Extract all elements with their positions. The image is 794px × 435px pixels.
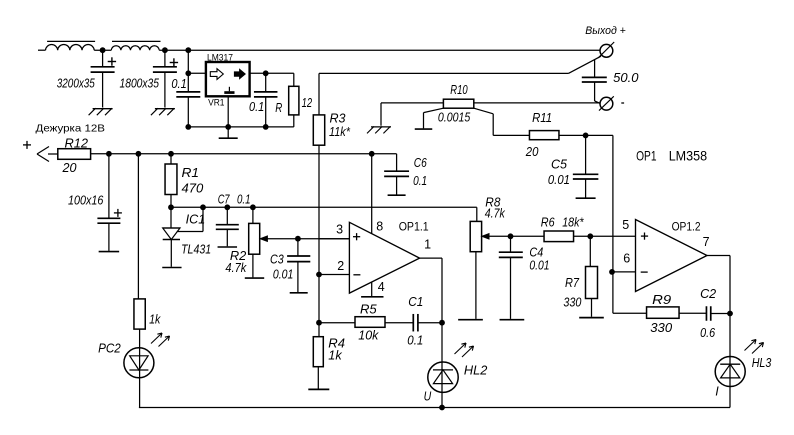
svg-text:50.0: 50.0 (613, 71, 638, 85)
svg-text:R9: R9 (652, 292, 671, 307)
svg-text:3: 3 (336, 222, 343, 236)
svg-text:R12: R12 (65, 137, 89, 151)
svg-text:8: 8 (376, 219, 383, 233)
svg-text:HL3: HL3 (752, 356, 772, 370)
svg-text:0.1: 0.1 (237, 192, 251, 206)
svg-text:1k: 1k (328, 348, 342, 362)
svg-text:7: 7 (703, 235, 710, 249)
svg-text:0.01: 0.01 (529, 259, 549, 273)
svg-text:0.01: 0.01 (548, 173, 570, 187)
svg-text:0.1: 0.1 (407, 333, 423, 347)
svg-text:20: 20 (525, 145, 539, 159)
svg-text:R10: R10 (450, 83, 467, 97)
svg-text:LM317: LM317 (207, 53, 233, 64)
svg-text:0.01: 0.01 (273, 267, 293, 281)
svg-text:R7: R7 (565, 276, 580, 290)
svg-text:3200x35: 3200x35 (57, 77, 95, 91)
svg-text:R3: R3 (330, 112, 346, 126)
svg-text:U: U (424, 389, 432, 403)
svg-text:C3: C3 (270, 253, 284, 267)
svg-text:TL431: TL431 (181, 242, 211, 256)
svg-text:C5: C5 (551, 157, 567, 171)
svg-text:R: R (275, 101, 282, 115)
svg-text:OP1.2: OP1.2 (672, 222, 701, 234)
svg-text:C2: C2 (700, 287, 716, 301)
svg-text:10k: 10k (358, 328, 379, 342)
svg-text:0.1: 0.1 (249, 100, 264, 114)
svg-text:1: 1 (424, 237, 431, 251)
svg-text:0.1: 0.1 (413, 174, 427, 188)
svg-text:6: 6 (623, 252, 630, 266)
svg-text:1800x35: 1800x35 (120, 77, 160, 91)
svg-text:0.0015: 0.0015 (438, 111, 470, 125)
svg-text:HL2: HL2 (464, 364, 487, 378)
svg-text:0.1: 0.1 (171, 77, 186, 91)
svg-text:PC2: PC2 (98, 342, 121, 356)
svg-text:C6: C6 (414, 156, 427, 170)
svg-text:LM358: LM358 (669, 148, 708, 163)
svg-text:4: 4 (378, 280, 385, 294)
svg-text:R5: R5 (360, 302, 377, 316)
svg-text:5: 5 (622, 218, 629, 232)
svg-text:1k: 1k (149, 312, 161, 326)
svg-text:Дежурка 12В: Дежурка 12В (36, 124, 106, 135)
svg-text:R6: R6 (541, 216, 555, 230)
svg-text:OP1.1: OP1.1 (399, 221, 429, 233)
svg-text:100x16: 100x16 (68, 194, 103, 208)
svg-text:I: I (715, 385, 719, 399)
svg-text:R11: R11 (532, 111, 552, 125)
svg-text:R1: R1 (182, 165, 200, 180)
svg-text:VR1: VR1 (208, 98, 224, 109)
svg-text:12: 12 (302, 96, 313, 110)
svg-text:11k*: 11k* (329, 125, 351, 139)
svg-text:330: 330 (563, 295, 581, 309)
svg-text:C4: C4 (529, 246, 543, 260)
svg-text:OP1: OP1 (636, 148, 656, 163)
svg-text:2: 2 (337, 259, 344, 273)
svg-text:0.6: 0.6 (700, 326, 715, 340)
svg-text:IC1: IC1 (186, 212, 206, 226)
svg-text:Выход +: Выход + (585, 25, 626, 37)
svg-text:20: 20 (61, 161, 76, 175)
svg-text:4.7k: 4.7k (485, 206, 506, 220)
svg-text:470: 470 (182, 180, 205, 195)
svg-text:C7: C7 (218, 192, 231, 206)
svg-text:18k*: 18k* (562, 216, 584, 230)
svg-text:4.7k: 4.7k (225, 261, 247, 275)
svg-text:C1: C1 (408, 295, 423, 309)
svg-text:330: 330 (650, 321, 672, 335)
